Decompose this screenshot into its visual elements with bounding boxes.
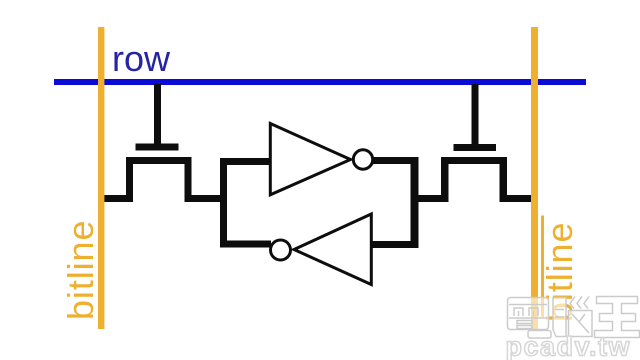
wire Q1 drain to node A [185, 195, 228, 202]
op-amp U1 inverter triangle [270, 124, 350, 195]
transistor Q1 gate bar [136, 144, 179, 151]
transistor Q2 gate bar [454, 144, 497, 151]
transistor Q2 gate lead [472, 84, 479, 144]
transistor Q1 source leg [126, 157, 133, 202]
watermark ideograph 3 [595, 297, 640, 338]
node A vertical wire [220, 158, 227, 248]
op-amp U1 output bubble [353, 150, 372, 169]
wire U1 output to node B [372, 157, 419, 164]
wire row line [54, 79, 586, 85]
overline of right bitline label [541, 216, 544, 318]
transistor Q1 gate lead [154, 84, 161, 144]
node B vertical wire [411, 157, 419, 248]
wire node B to inverter U2 input [372, 241, 419, 248]
op-amp U2 output bubble [271, 240, 291, 260]
watermark ideograph 1 [508, 298, 552, 339]
wire Q1 source to left bitline [100, 195, 133, 202]
transistor Q2 drain leg [441, 157, 449, 202]
op-amp U2 inverter triangle [294, 214, 371, 285]
wire Q2 source to right bitline [500, 195, 536, 202]
wire node A to inverter U1 input [220, 158, 270, 165]
watermark ideograph 2 [553, 297, 592, 337]
wire node B to Q2 drain [411, 195, 449, 202]
svg-text:pcadv.tw: pcadv.tw [506, 332, 632, 360]
transistor Q1 channel top [126, 157, 192, 164]
transistor Q1 drain leg [185, 157, 192, 202]
svg-text:row: row [112, 38, 171, 79]
left bitline wire [98, 27, 104, 329]
right bitline wire [531, 27, 538, 330]
transistor Q2 source leg [500, 157, 508, 202]
wire inverter U2 output to node A [220, 241, 271, 248]
transistor Q2 channel top [441, 157, 507, 164]
svg-text:bitline: bitline [60, 220, 101, 320]
